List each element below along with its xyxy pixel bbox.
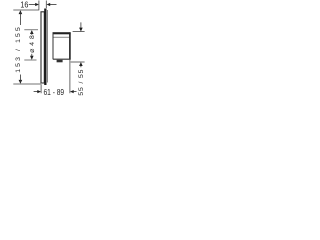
front view right edge extension down <box>69 60 71 94</box>
dim d48 line lower <box>31 54 33 57</box>
svg-text:16: 16 <box>20 0 28 9</box>
front view plate bottom edge <box>53 58 71 60</box>
dim d48 arrow down <box>30 56 34 60</box>
svg-text:61 - 89: 61 - 89 <box>44 88 65 97</box>
dim 153/155 top extension line <box>13 9 39 11</box>
dim 55/55 line below <box>80 65 82 68</box>
front view plate left edge <box>52 32 54 59</box>
dim 153/155 arrow up <box>19 10 23 14</box>
dim 55/55 arrow up <box>79 62 83 66</box>
front view plate top edge <box>53 32 71 34</box>
side view knob outline <box>41 12 44 83</box>
dimension 16 arrow left <box>35 3 39 6</box>
dim d48 bottom extension line <box>24 59 36 61</box>
dimension 16 leader right <box>50 4 57 6</box>
dim 153/155 line lower <box>19 75 21 83</box>
front view handle tab <box>57 60 63 63</box>
dim 61-89 leader left <box>34 91 38 93</box>
side view back line <box>46 10 48 83</box>
svg-text:⌀48: ⌀48 <box>29 35 36 53</box>
dimension 16 extension line right <box>45 1 47 9</box>
dim d48 arrow up <box>30 30 34 34</box>
dim 61-89 leader right <box>74 91 77 93</box>
front view inner line <box>54 36 70 38</box>
dim 61-89 left extension line <box>40 84 42 93</box>
dimension 16 extension line left <box>38 1 40 11</box>
dim 153/155 line upper <box>19 12 21 25</box>
dim 153/155 arrow down <box>19 80 23 84</box>
dimension 16 arrow right <box>47 3 51 6</box>
dim 55/55 arrow down <box>79 28 83 32</box>
dim 55/55 line above <box>80 22 82 28</box>
dim d48 line upper <box>31 32 33 35</box>
svg-text:153 / 155: 153 / 155 <box>15 27 22 73</box>
side view plate bar <box>44 9 46 86</box>
dim d48 top extension line <box>24 29 38 31</box>
dim 55/55 bottom extension line <box>71 61 85 63</box>
dimension 16 leader left <box>29 4 36 6</box>
dim 61-89 arrow left <box>37 90 41 93</box>
dim 153/155 bottom extension line <box>13 83 40 85</box>
svg-text:55 / 55: 55 / 55 <box>78 69 85 95</box>
dim 55/55 top extension line <box>73 31 85 33</box>
dim 61-89 arrow right <box>70 90 74 93</box>
front view plate right edge <box>69 32 71 59</box>
